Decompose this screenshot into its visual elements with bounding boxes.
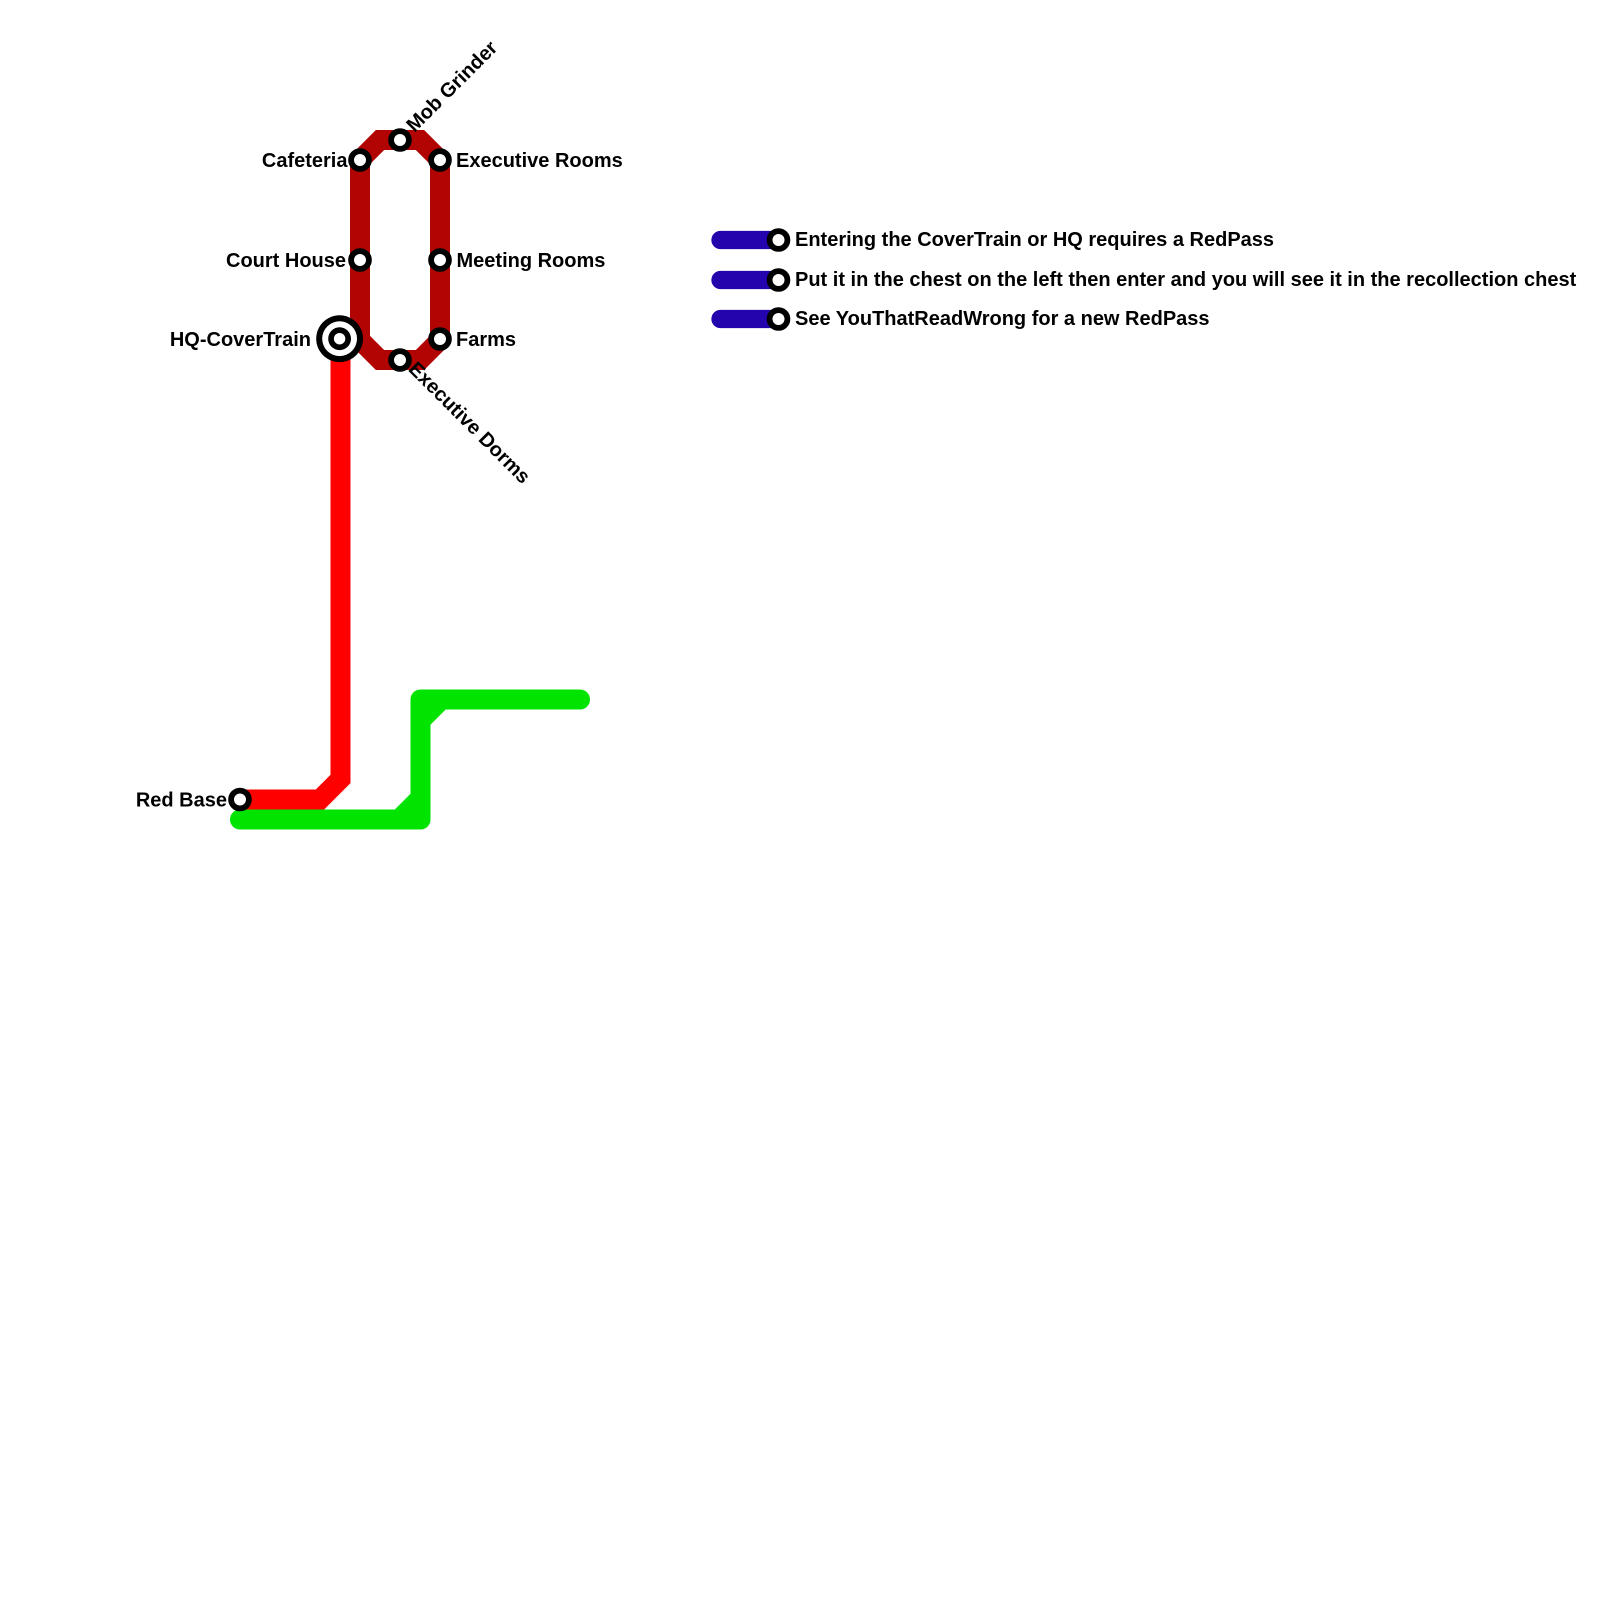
dark red loop line bbox=[360, 140, 440, 360]
wire green vertical bbox=[411, 699, 431, 820]
svg-text:Cafeteria: Cafeteria bbox=[262, 150, 348, 172]
station Meeting Rooms bbox=[431, 251, 449, 269]
station Cafeteria bbox=[351, 151, 369, 169]
station Farms bbox=[431, 330, 449, 348]
svg-text:Red Base: Red Base bbox=[136, 790, 227, 812]
wire green top corner bevel bbox=[422, 702, 440, 720]
svg-text:See YouThatReadWrong for a new: See YouThatReadWrong for a new RedPass bbox=[795, 308, 1210, 330]
legend station circle 3 bbox=[770, 310, 788, 328]
svg-text:HQ-CoverTrain: HQ-CoverTrain bbox=[170, 329, 311, 351]
wire green bottom corner bevel bbox=[399, 798, 421, 820]
legend pill 2 bbox=[721, 271, 779, 289]
legend pill 1 bbox=[721, 231, 779, 249]
legend station circle 2 bbox=[770, 271, 788, 289]
svg-text:Entering the CoverTrain or HQ: Entering the CoverTrain or HQ requires a… bbox=[795, 229, 1274, 251]
wire green top horizontal bbox=[421, 690, 581, 710]
station Executive Dorms bbox=[391, 351, 409, 369]
red line bbox=[240, 340, 341, 800]
svg-text:Meeting Rooms: Meeting Rooms bbox=[457, 250, 606, 272]
legend pill 3 bbox=[721, 310, 779, 328]
legend station circle 1 bbox=[770, 231, 788, 249]
wire green bottom horizontal bbox=[240, 810, 421, 830]
svg-text:Put it in the chest on the lef: Put it in the chest on the left then ent… bbox=[795, 269, 1577, 291]
svg-text:Executive Rooms: Executive Rooms bbox=[456, 150, 623, 172]
interchange HQ-CoverTrain bbox=[316, 315, 363, 362]
station Executive Rooms bbox=[431, 151, 449, 169]
station Red Base bbox=[231, 791, 249, 809]
station Court House bbox=[351, 251, 369, 269]
svg-text:Farms: Farms bbox=[456, 329, 516, 351]
station Mob Grinder bbox=[391, 131, 409, 149]
svg-text:Court House: Court House bbox=[226, 250, 346, 272]
